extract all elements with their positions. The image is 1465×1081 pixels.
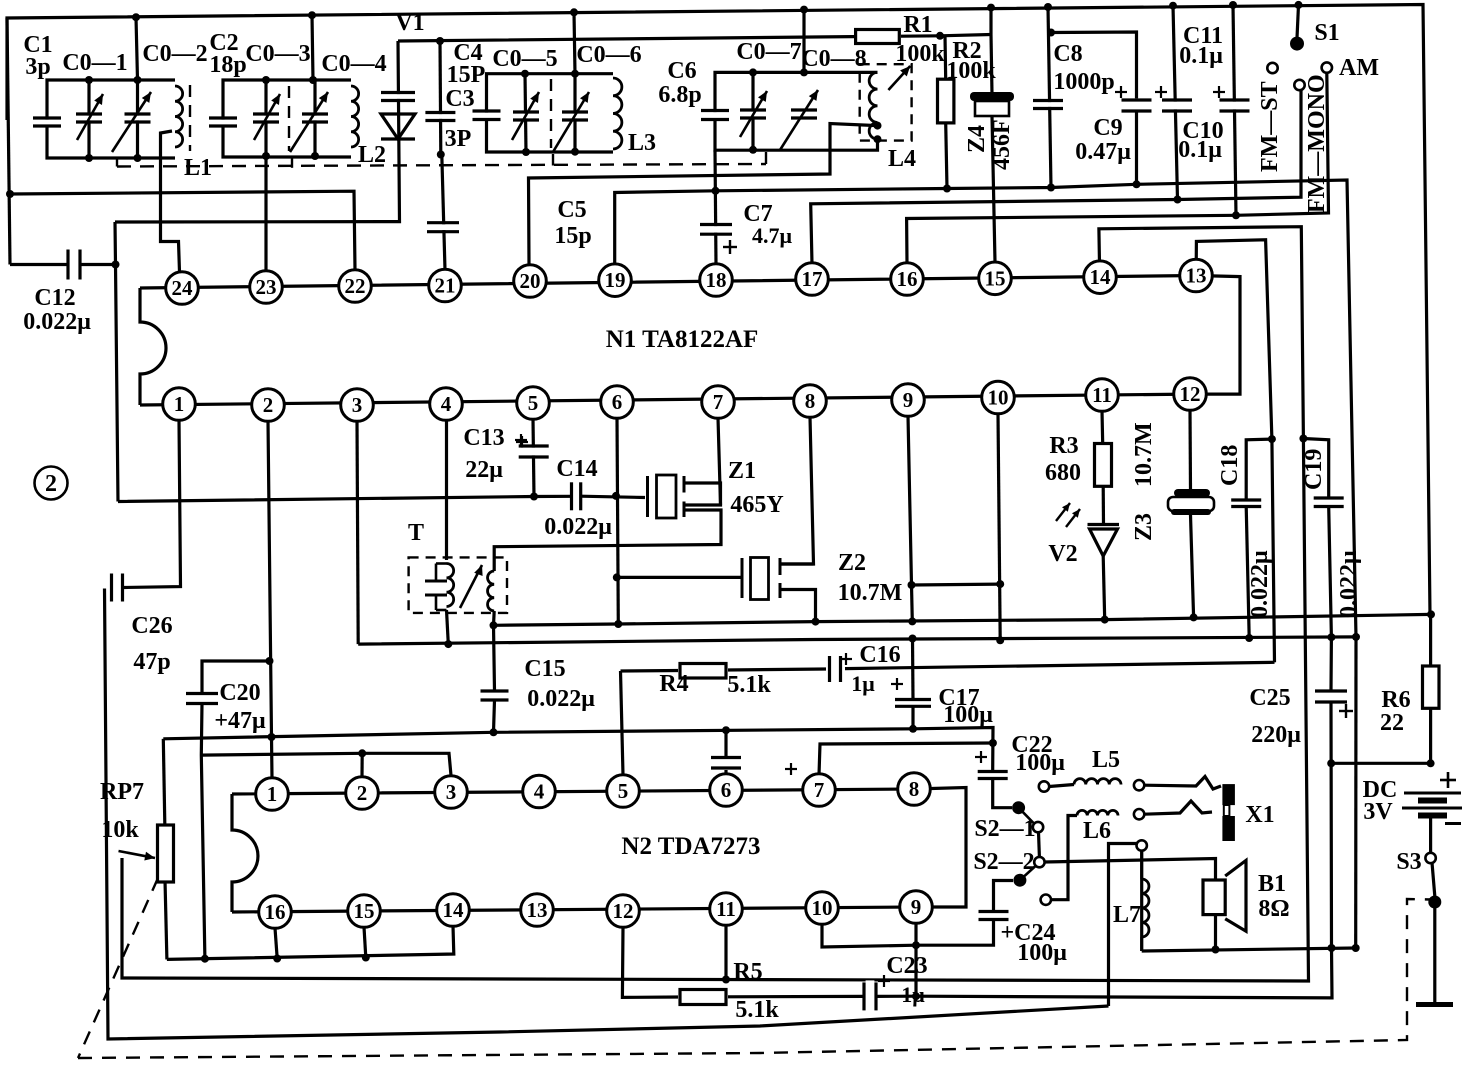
svg-text:C0—1: C0—1	[62, 50, 127, 76]
inductor L6	[1077, 810, 1118, 815]
wire C17 column from line-2 to rail-738	[911, 639, 915, 700]
node FM tank2 rail dots	[749, 68, 757, 76]
svg-text:4.7μ: 4.7μ	[752, 223, 793, 248]
wire FM tank1 box	[487, 74, 614, 115]
svg-text:5: 5	[618, 779, 629, 803]
wire C6 tank column through C7 to pin 18	[715, 150, 716, 264]
pin 23 of N1	[250, 271, 283, 304]
svg-text:C26: C26	[131, 613, 172, 639]
node C19 junction on pin14 column	[1299, 435, 1307, 443]
wire N1 pin row top interconnect	[140, 276, 1240, 395]
pin 3 of N2	[435, 776, 468, 809]
variable capacitor C0-2	[123, 116, 153, 121]
svg-text:C19: C19	[1301, 449, 1327, 490]
wire C3 column: pin 21 up through C3 C5 to FM rail	[442, 155, 445, 271]
wire C4 column from y41 node to FM tank rail	[438, 41, 442, 155]
node S3 ball	[1428, 896, 1441, 909]
capacitor C16 1u	[831, 654, 839, 684]
node top-border junction dots	[132, 13, 140, 21]
wire AM tank1 box	[47, 80, 175, 122]
diode V1 varactor	[379, 94, 417, 99]
svg-text:3V: 3V	[1363, 799, 1393, 825]
svg-text:C0—2: C0—2	[142, 41, 207, 67]
ceramic disc Z3 10.7M	[1174, 489, 1210, 497]
svg-text:9: 9	[911, 895, 922, 919]
node dots on bus0	[201, 955, 209, 963]
svg-text:X1: X1	[1245, 802, 1274, 828]
wire N1 pin7 column to Z1 right	[684, 418, 721, 505]
pin 16 of N1	[891, 263, 924, 296]
wire N2 pin9 column down to R5 C23 line	[914, 924, 917, 997]
node pin9 junction	[908, 581, 916, 589]
svg-text:10k: 10k	[101, 817, 139, 843]
wire R5 C23 feedback line	[622, 928, 680, 998]
node pin9 column dot on C24 line	[912, 941, 920, 949]
wire Z1 upper lead	[684, 483, 721, 505]
capacitor C23 1u	[866, 980, 875, 1012]
wire L7 coil bottom corner	[1140, 851, 1143, 951]
svg-text:C6: C6	[667, 58, 696, 84]
pin 21 of N1	[429, 269, 462, 302]
wire C0-5 column	[525, 74, 526, 152]
pin 7 of N1	[702, 386, 735, 419]
node C18 junction on pin13 column	[1268, 435, 1276, 443]
pin 6 of N2	[710, 774, 743, 807]
node dots on line-499	[530, 493, 538, 501]
svg-text:8: 8	[805, 389, 816, 413]
wire ground line-2 long horizontal	[358, 637, 1356, 644]
svg-text:1: 1	[267, 782, 278, 806]
svg-text:14: 14	[1090, 265, 1112, 289]
capacitor C12 0.022u	[70, 248, 79, 282]
capacitor C13 22u	[517, 448, 551, 456]
svg-text:FM—ST: FM—ST	[1257, 81, 1283, 172]
capacitor C18 0.022u	[1229, 502, 1263, 505]
pin 5 of N2	[607, 775, 640, 808]
node dots on pin6 column	[613, 573, 621, 581]
wire pin 20 to L4 tap line	[529, 124, 878, 265]
svg-text:N2 TDA7273: N2 TDA7273	[621, 833, 760, 860]
pin 10 of N1	[982, 381, 1015, 414]
node battery feed junction on C25 column	[1327, 759, 1335, 767]
wire T secondary bottom through C15 to rail-738	[494, 611, 495, 691]
wire N1 pin4 column to IF transformer T	[445, 420, 448, 560]
wire FM tank1 vertical C0-6 column to top border	[574, 12, 575, 73]
svg-text:5: 5	[528, 391, 539, 415]
wire dashed gang verticals inside tanks	[189, 85, 191, 151]
variable capacitor C0-6	[560, 114, 590, 119]
capacitor C17 100u	[893, 701, 933, 705]
node dots on line-617	[490, 621, 498, 629]
battery DC 3V	[1404, 792, 1461, 795]
svg-text:C0—6: C0—6	[576, 42, 641, 68]
variable capacitor C0-1	[74, 116, 104, 121]
node C11 junction on pin17 line	[1174, 196, 1182, 204]
wire AM tank1 vertical C0-2 column to top border	[136, 17, 138, 80]
svg-text:C5: C5	[557, 197, 586, 223]
svg-text:18: 18	[706, 268, 727, 292]
pin 9 of N2	[900, 891, 933, 924]
svg-text:Z1: Z1	[728, 458, 756, 484]
svg-text:S2—1: S2—1	[974, 816, 1035, 842]
svg-text:B1: B1	[1258, 871, 1286, 897]
wire S1 pole stem	[1297, 5, 1299, 38]
wire C20 bottom through rail to line-755 and bus0	[201, 704, 205, 959]
svg-text:14: 14	[443, 898, 465, 922]
svg-text:220μ: 220μ	[1251, 722, 1301, 748]
wire C0-1 column in tank1	[87, 80, 90, 158]
wire C0-3 column down to pin 23	[264, 156, 267, 271]
switch S2-1	[1012, 801, 1025, 814]
capacitor C22 100u	[976, 773, 1010, 777]
svg-text:3: 3	[446, 780, 457, 804]
resistor R5 5.1k	[678, 988, 728, 1005]
svg-text:5.1k: 5.1k	[727, 672, 771, 698]
capacitor C4 15P embedded in FM tank1 edge	[471, 113, 503, 118]
capacitor C3 3P	[423, 114, 457, 119]
wire N2 pin10 to C24 bottom line	[822, 924, 916, 947]
wire N1 left edge with notch	[140, 288, 166, 405]
svg-text:N1 TA8122AF: N1 TA8122AF	[606, 326, 759, 353]
wire C9 top line to C8 column	[1051, 32, 1137, 98]
svg-text:S2—2: S2—2	[973, 849, 1034, 875]
wire L6 right to X1 lower contact	[1144, 801, 1212, 814]
wire C18 stub and column	[1246, 439, 1272, 500]
wire C22 feed from rail corner	[991, 768, 994, 772]
pin 8 of N2	[898, 773, 931, 806]
wire rail-738 ground rail	[163, 728, 993, 769]
svg-text:7: 7	[814, 778, 825, 802]
wire C22 bottom to S2-1 pole	[993, 779, 1012, 808]
crystal Z1 465Y	[646, 476, 649, 517]
wire L5 right to X1 upper contact	[1144, 777, 1221, 790]
capacitor C14 0.022u in line 499	[573, 480, 579, 512]
wire N1 pin11 column through R3 V2	[1100, 411, 1104, 444]
capacitor C5 15p on pin21 column	[425, 224, 461, 230]
ground chassis bar	[1416, 1002, 1453, 1007]
pin 1 of N2	[256, 778, 289, 811]
contact L6 throw circle	[1041, 895, 1051, 905]
inductor L4 in dashed box	[869, 72, 877, 139]
wire N1 pin8 column to Z2 upper right	[780, 417, 814, 564]
svg-text:22: 22	[1380, 710, 1404, 736]
wire L6 throw to L6 coil	[1051, 816, 1077, 900]
wire AM tank2 vertical to top border	[312, 15, 313, 80]
wire C0-8 column to top border	[802, 10, 805, 73]
wire C19 bottom to line-2 and C25 and ground bottom	[1329, 507, 1332, 692]
pin 12 of N2	[607, 895, 640, 928]
wire R2 column	[943, 36, 947, 79]
node line-b end dot	[989, 739, 997, 747]
node C12 junction	[112, 261, 120, 269]
svg-text:18p: 18p	[209, 52, 246, 78]
svg-text:5.1k: 5.1k	[735, 997, 779, 1023]
svg-text:12: 12	[1180, 382, 1201, 406]
svg-text:10.7M: 10.7M	[838, 580, 903, 606]
variable capacitor C0-3	[251, 116, 281, 121]
pin 16 of N2	[259, 896, 292, 929]
svg-text:L2: L2	[358, 142, 386, 168]
node tank2 rail dots	[262, 76, 270, 84]
svg-text:0.022μ: 0.022μ	[1247, 550, 1273, 618]
wire circled-2 figure mark	[35, 467, 68, 500]
svg-text:Z3: Z3	[1131, 513, 1157, 541]
wire pin 19 ground line to right side corner	[615, 180, 1356, 637]
wire L1 tap down to pin 24	[161, 131, 180, 272]
pin 14 of N1	[1084, 261, 1117, 294]
node dots on rail-738	[490, 728, 498, 736]
wire C10 column from top border down to pin16 line	[1233, 5, 1236, 215]
switch S3 contact	[1425, 853, 1435, 863]
svg-text:11: 11	[716, 897, 736, 921]
svg-text:2: 2	[45, 471, 57, 497]
switch S2-2	[1013, 874, 1026, 887]
svg-text:15P: 15P	[447, 62, 486, 88]
LED V2	[1090, 529, 1118, 556]
node FM tank1 rail dots	[521, 70, 529, 78]
svg-text:C13: C13	[463, 425, 504, 451]
svg-text:1μ: 1μ	[901, 982, 925, 1007]
wire FM tank2 box with L4	[715, 72, 878, 115]
svg-text:C20: C20	[219, 680, 260, 706]
wire N2 pin row top interconnect	[232, 788, 966, 908]
wire N1 pin1 column to C26	[124, 420, 181, 588]
speaker B1 8ohm	[1203, 880, 1225, 915]
wire Z2 lower right lead down to line-617	[780, 590, 816, 622]
pin 9 of N1	[892, 384, 925, 417]
svg-text:C3: C3	[445, 86, 474, 112]
svg-text:465Y: 465Y	[730, 492, 783, 518]
crystal Z2 10.7M	[741, 558, 744, 598]
svg-text:C23: C23	[886, 953, 927, 979]
node left border y=194	[6, 190, 14, 198]
svg-text:Z2: Z2	[838, 550, 866, 576]
wire B1 bottom lead	[1214, 915, 1217, 950]
node dots on line-2	[444, 640, 452, 648]
pin 17 of N1	[796, 263, 829, 296]
pin 1 of N1	[163, 388, 196, 421]
svg-text:2: 2	[263, 393, 274, 417]
svg-text:0.022μ: 0.022μ	[1336, 550, 1362, 618]
svg-text:10: 10	[988, 386, 1009, 410]
svg-text:3: 3	[352, 393, 363, 417]
svg-text:0.1μ: 0.1μ	[1179, 43, 1223, 69]
wire T primary bottom to line-2	[447, 610, 449, 644]
svg-text:11: 11	[1092, 383, 1112, 407]
wire R6 from line-617 dot to battery	[1429, 614, 1432, 666]
svg-text:C0—7: C0—7	[736, 39, 801, 65]
wire C8 column from top border down to ground line	[1048, 7, 1051, 188]
wire S3 ball to ground bar	[1433, 902, 1436, 1005]
svg-text:R3: R3	[1049, 433, 1078, 459]
wire AM tank2 box	[223, 80, 351, 122]
capacitor C8 1000p	[1031, 102, 1065, 107]
node dots on pin19 ground line	[712, 187, 720, 195]
svg-text:AM: AM	[1339, 55, 1379, 81]
wire lower-left border from C26 to bottom line	[105, 589, 1109, 1040]
capacitor C11 0.1u	[1160, 102, 1194, 110]
svg-text:3P: 3P	[445, 126, 472, 152]
wire Z4 column from top border down to pin 15 of N1	[989, 8, 992, 35]
svg-text:1000p: 1000p	[1053, 69, 1114, 95]
wire C0-4 column in tank2	[313, 80, 316, 157]
svg-text:100k: 100k	[895, 41, 945, 67]
ceramic filter Z4 456F	[970, 92, 1014, 101]
wire C0-2 column in tank1	[136, 80, 139, 158]
pin 13 of N1	[1180, 259, 1213, 292]
wire N2 pin7 line-b to C22 column	[819, 743, 993, 775]
variable capacitor C0-4	[300, 116, 330, 121]
node C9 top on C8 column	[1047, 29, 1055, 37]
capacitor C20 47u	[184, 695, 220, 702]
wire ganged tuning dashed line	[116, 158, 118, 167]
svg-text:15p: 15p	[554, 223, 591, 249]
svg-text:4: 4	[441, 392, 452, 416]
pin 18 of N1	[700, 264, 733, 297]
svg-text:0.1μ: 0.1μ	[1178, 137, 1222, 163]
inductor L2	[351, 86, 359, 147]
capacitor C7 4.7u on pin18 column	[698, 226, 734, 233]
wire T secondary top to Z1 lower lead	[494, 510, 721, 571]
pin 13 of N2	[521, 894, 554, 927]
svg-text:2: 2	[357, 781, 368, 805]
svg-text:S1: S1	[1314, 20, 1339, 46]
pin 24 of N1	[166, 272, 199, 305]
wire N1 pin6 column: to Z1 line, Z2 left, line-624	[617, 418, 618, 624]
svg-text:C12: C12	[34, 285, 75, 311]
wire N1 pin10 column	[998, 414, 1000, 640]
pin 11 of N1	[1086, 379, 1119, 412]
wire C20 line from pin2 column	[202, 661, 270, 694]
node L4 tap dots	[874, 122, 882, 130]
node R1 R2 junction	[936, 32, 944, 40]
svg-text:1: 1	[174, 392, 185, 416]
pin 4 of N1	[430, 388, 463, 421]
switch S1 pole and contacts	[1290, 37, 1304, 51]
svg-text:C0—5: C0—5	[492, 46, 557, 72]
svg-text:C15: C15	[524, 656, 565, 682]
svg-text:C25: C25	[1249, 685, 1290, 711]
wire N1 pin row bottom interconnect	[140, 394, 1190, 405]
svg-text:16: 16	[265, 900, 286, 924]
pin 6 of N1	[601, 386, 634, 419]
resistor R6 22	[1423, 666, 1440, 708]
wire long line y=192 from left border to pin 22	[10, 191, 355, 270]
resistor R1 100k	[854, 28, 901, 44]
capacitor C9 0.47u	[1120, 102, 1154, 110]
wire N2 pin row bottom interconnect	[232, 907, 916, 912]
svg-text:L5: L5	[1092, 747, 1120, 773]
svg-text:20: 20	[520, 269, 541, 293]
svg-text:22μ: 22μ	[465, 457, 503, 483]
svg-text:Z4: Z4	[964, 125, 990, 153]
wire N2 pin2 stub	[360, 753, 363, 776]
svg-text:100μ: 100μ	[1015, 750, 1065, 776]
svg-text:24: 24	[172, 276, 194, 300]
wire RP7 bottom lead	[165, 880, 167, 959]
wire C19 stub and column	[1303, 439, 1328, 499]
wire line-755 to N2 pins 2 3	[201, 753, 451, 775]
wire L7 top circle stub and long vertical	[1109, 844, 1138, 1007]
wire battery feed line	[1331, 762, 1430, 765]
inductor L7 with top contact	[1137, 840, 1147, 850]
svg-text:0.47μ: 0.47μ	[1075, 139, 1131, 165]
wire N2 bottom rail bus0	[167, 926, 454, 959]
svg-text:13: 13	[527, 898, 548, 922]
inductor L3	[613, 78, 622, 149]
IF transformer T with core arrow	[409, 557, 507, 613]
wire N1 pin3 column to ground line-2	[357, 421, 358, 644]
svg-text:10.7M: 10.7M	[1131, 422, 1157, 487]
pin 15 of N2	[348, 895, 381, 928]
node dots on ground bottom line y948	[1328, 944, 1336, 952]
svg-text:3p: 3p	[25, 54, 50, 80]
svg-text:C8: C8	[1053, 41, 1082, 67]
svg-text:4: 4	[534, 780, 545, 804]
pin 15 of N1	[979, 262, 1012, 295]
svg-text:10: 10	[812, 896, 833, 920]
wire C12 lead from left border	[10, 263, 68, 266]
svg-text:15: 15	[354, 899, 375, 923]
svg-text:L7: L7	[1113, 902, 1141, 928]
wire battery bottom to S3	[1429, 817, 1432, 853]
pin 2 of N2	[346, 777, 379, 810]
node C10 junction on pin16 line	[1232, 211, 1240, 219]
wire N1 pin9 column to pin10 and line-617	[908, 416, 1000, 585]
svg-text:FM—MONO: FM—MONO	[1304, 74, 1330, 213]
wire N2 pin16 pin15 stubs to bus0	[275, 928, 277, 959]
svg-text:C0—4: C0—4	[321, 51, 386, 77]
wire Va right vertical from line-2 down to ground line	[1354, 637, 1358, 948]
svg-text:1μ: 1μ	[851, 671, 875, 696]
wire C14 C13 plus mark	[516, 441, 528, 443]
svg-text:6: 6	[612, 390, 623, 414]
wire N1 pin2 column down to N2 pin1	[268, 421, 272, 778]
variable capacitor C0-8	[789, 112, 819, 117]
svg-text:L6: L6	[1083, 818, 1111, 844]
wire N2 pin11 column to volume bus	[724, 925, 727, 980]
capacitor on N2 pin6	[709, 759, 743, 766]
svg-text:V1: V1	[395, 10, 424, 36]
svg-text:13: 13	[1186, 264, 1207, 288]
svg-text:0.022μ: 0.022μ	[527, 686, 595, 712]
variable capacitor C0-7	[738, 112, 768, 117]
wire pin 17 line to FM-MONO contact	[811, 90, 1301, 265]
wire L5 left lead	[1049, 785, 1074, 787]
node dot line-755 pin2	[358, 749, 366, 757]
svg-text:+47μ: +47μ	[214, 708, 266, 734]
wire V1 oscillator line y=41 from V1 to R1 and R2 Z4	[398, 35, 991, 42]
capacitor C1 3p embedded in tank1 left edge	[31, 120, 63, 125]
pin 20 of N1	[514, 265, 547, 298]
inductor L1	[175, 86, 183, 147]
capacitor C6 6.8p embedded in FM tank2 edge	[699, 112, 731, 118]
svg-text:L1: L1	[184, 155, 212, 181]
svg-text:16: 16	[897, 267, 918, 291]
svg-text:100μ: 100μ	[943, 702, 993, 728]
svg-text:100μ: 100μ	[1017, 940, 1067, 966]
svg-text:456F: 456F	[989, 119, 1015, 170]
node battery R6 junction	[1427, 759, 1435, 767]
svg-text:6: 6	[721, 778, 732, 802]
wire N2 pin5 column up to R4 corner	[621, 671, 624, 775]
wire C24 top to S2-2 pole	[994, 881, 1014, 912]
wire N2 pin6 bypass cap column	[724, 770, 727, 775]
wire ground y948 line L7 B1 C25 Va	[1142, 948, 1356, 951]
pin 7 of N2	[803, 774, 836, 807]
svg-text:T: T	[408, 520, 424, 546]
wire top supply border	[7, 5, 1430, 615]
